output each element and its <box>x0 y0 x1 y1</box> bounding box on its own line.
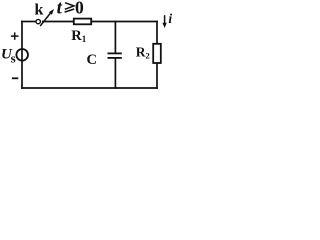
wire left vertical <box>21 22 23 89</box>
wire right vertical lower <box>156 64 158 89</box>
switch arrow head <box>49 9 54 15</box>
resistor R2 box <box>153 44 161 63</box>
wire top middle segment <box>43 21 74 23</box>
capacitor C plates <box>108 53 122 58</box>
svg-text:s: s <box>11 50 16 65</box>
resistor R1 box <box>74 19 91 25</box>
svg-text:C: C <box>87 52 97 68</box>
wire capacitor branch lower <box>114 58 116 88</box>
label minus <box>12 77 18 79</box>
current arrow i shaft <box>164 15 166 24</box>
wire bottom <box>22 87 157 89</box>
wire top right segment <box>92 21 158 23</box>
svg-text:R2: R2 <box>136 45 150 61</box>
wire capacitor branch upper <box>114 22 116 53</box>
svg-text:k: k <box>35 1 44 18</box>
svg-text:t: t <box>57 0 63 19</box>
switch k blade <box>40 12 51 26</box>
svg-text:0: 0 <box>75 0 84 17</box>
svg-text:i: i <box>168 11 172 26</box>
label plus <box>11 32 19 39</box>
wire top left segment <box>22 21 36 23</box>
label >= glyph <box>65 3 75 12</box>
voltage source U_s circle <box>16 49 28 61</box>
current arrow i head <box>162 23 166 28</box>
switch k pivot contact <box>36 19 40 23</box>
wire right vertical upper <box>156 22 158 44</box>
svg-text:R1: R1 <box>71 28 86 44</box>
